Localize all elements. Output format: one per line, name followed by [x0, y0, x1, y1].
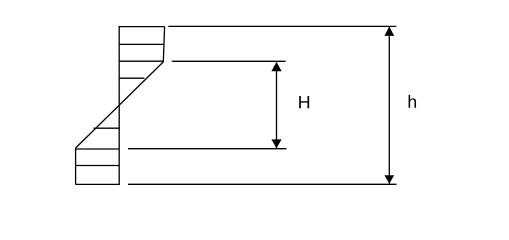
hatch line lower 2: [76, 148, 120, 150]
pressure diagram bottom edge: [76, 183, 120, 185]
bottom extension line to h dimension: [128, 183, 397, 185]
pressure envelope diagonal: [76, 62, 164, 148]
pressure diagram left edge: [75, 148, 77, 185]
wall axis vertical line: [118, 26, 120, 185]
label H: [299, 96, 309, 108]
lower extension line to H dimension: [128, 148, 287, 150]
label h: [409, 95, 416, 108]
dimension H arrowhead top: [271, 62, 281, 71]
upper extension line to H dimension: [172, 60, 286, 62]
dimension h arrow shaft: [388, 27, 390, 184]
hatch line upper 1: [119, 43, 164, 45]
dimension H arrowhead bottom: [271, 139, 281, 148]
hatch line upper 3: [119, 77, 144, 79]
dimension H arrow shaft: [276, 63, 278, 149]
hatch line lower 1: [94, 127, 120, 129]
top extension line to h dimension: [168, 25, 396, 27]
hatch line upper 2: [119, 60, 163, 62]
pressure diagram right edge: [163, 27, 164, 62]
dimension h arrowhead top: [384, 27, 394, 36]
pressure diagram top edge: [120, 26, 165, 28]
hatch line lower 3: [76, 165, 120, 167]
dimension h arrowhead bottom: [384, 175, 394, 184]
